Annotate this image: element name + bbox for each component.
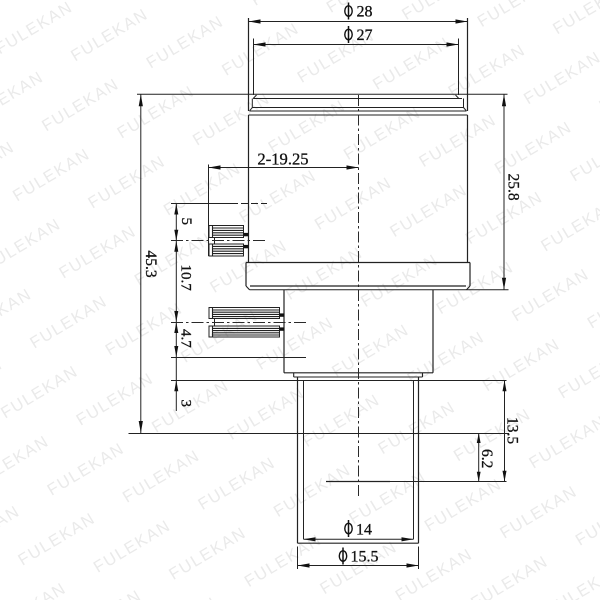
flange left edge xyxy=(245,263,247,287)
dim phi14 text xyxy=(345,523,352,533)
dim 25.8 line xyxy=(503,94,505,289)
terminal T2 stub upper xyxy=(280,313,285,316)
svg-text:5: 5 xyxy=(178,218,194,226)
extension line y357 xyxy=(171,357,306,359)
dim phi27 line xyxy=(254,44,459,46)
step right edge xyxy=(422,373,424,377)
dim phi15.5 extension right xyxy=(418,547,420,570)
dim 3 bottom arrow xyxy=(174,380,178,391)
svg-text:2-19.25: 2-19.25 xyxy=(257,150,308,169)
dim phi27 text xyxy=(345,29,352,39)
extension line y380 (bushing top) xyxy=(171,380,507,382)
flange right edge xyxy=(469,263,471,287)
svg-text:6.2: 6.2 xyxy=(478,449,495,468)
shaft outer right wall xyxy=(418,377,420,543)
dim chain vertical line xyxy=(175,204,177,412)
cap inner left edge (phi27) xyxy=(253,39,255,96)
middle section left edge xyxy=(283,290,285,373)
terminal T1 centerline xyxy=(171,240,266,242)
cap skirt right vertical xyxy=(463,99,465,108)
dim phi14 line xyxy=(304,538,414,540)
cap skirt line y107.5 xyxy=(252,107,463,109)
extension line y433 (long) xyxy=(129,433,510,435)
cap skirt bevel right lower xyxy=(464,108,467,112)
dim 4.7 arrows and text xyxy=(174,322,178,333)
shaft inner right wall (phi14) xyxy=(413,381,415,540)
dim 2-19.25 line xyxy=(209,167,359,169)
centerline vertical axis xyxy=(358,95,360,497)
dim phi15.5 text xyxy=(339,551,346,561)
dim phi28 text xyxy=(345,6,352,16)
cap skirt line y111 xyxy=(250,110,467,112)
terminal T1 lower rib xyxy=(209,244,244,256)
svg-text:27: 27 xyxy=(357,27,373,44)
terminal T2 centerline xyxy=(171,322,306,324)
svg-text:4.7: 4.7 xyxy=(178,329,194,348)
svg-text:3: 3 xyxy=(178,400,194,408)
dim phi15.5 line xyxy=(298,565,419,567)
shaft inner left wall (phi14) xyxy=(303,381,305,540)
step bottom edge xyxy=(294,376,423,378)
dim phi28 line xyxy=(249,21,468,23)
svg-text:45.3: 45.3 xyxy=(142,251,159,278)
cap skirt top line + extension y94.3 xyxy=(137,93,508,95)
cap skirt bevel left upper xyxy=(253,95,256,99)
svg-text:14: 14 xyxy=(356,522,372,539)
dim 5 arrows and text xyxy=(174,204,178,215)
terminal T2 lower rib xyxy=(209,326,280,337)
svg-text:28: 28 xyxy=(357,4,373,21)
dim 2-19.25 extension vertical xyxy=(208,165,210,257)
svg-text:15.5: 15.5 xyxy=(351,549,379,566)
terminal T1 notch edge xyxy=(214,238,216,245)
shaft outer left wall xyxy=(297,377,299,543)
cap inner right edge (phi27) xyxy=(458,39,460,96)
terminal T1 upper rib xyxy=(209,226,244,238)
terminal T1 stub lower xyxy=(244,245,249,248)
body right edge xyxy=(467,115,469,263)
flange lip line / 25.8 extension xyxy=(250,289,509,291)
cap skirt bevel left lower xyxy=(250,108,253,112)
middle section bottom edge xyxy=(284,372,433,374)
svg-text:13.5: 13.5 xyxy=(504,417,521,444)
flange bevel bottom-right xyxy=(467,286,471,290)
terminal T2 stub lower xyxy=(280,327,285,330)
shaft bottom edge xyxy=(298,542,419,544)
cap skirt left vertical xyxy=(251,99,253,108)
hole bottom line / extension y482 xyxy=(326,481,390,483)
dim phi15.5 extension left xyxy=(297,547,299,570)
svg-text:10.7: 10.7 xyxy=(178,265,194,292)
flange top edge xyxy=(246,262,470,264)
flange bevel bottom-left xyxy=(246,286,250,290)
step left edge xyxy=(293,373,295,377)
extension line y203.5 (hidden feature) xyxy=(171,203,231,205)
dim 13.5 line xyxy=(504,380,506,482)
middle section right edge xyxy=(432,290,434,373)
cap outer left edge xyxy=(248,18,250,111)
flange bottom edge xyxy=(250,285,466,287)
cap outer right edge xyxy=(467,18,469,111)
terminal T1 stub upper xyxy=(244,233,249,236)
terminal T2 notch edge xyxy=(214,319,216,327)
terminal T2 upper rib xyxy=(209,308,280,319)
dim 45.3 line xyxy=(140,94,142,433)
cap skirt line y98.5 xyxy=(253,98,462,100)
dim 10.7 arrows and text xyxy=(174,241,178,252)
svg-text:25.8: 25.8 xyxy=(505,174,522,201)
body left edge xyxy=(248,115,250,263)
dim 6.2 line xyxy=(478,433,480,482)
body top edge y115 xyxy=(249,114,468,116)
cap skirt bevel right upper xyxy=(456,95,459,99)
